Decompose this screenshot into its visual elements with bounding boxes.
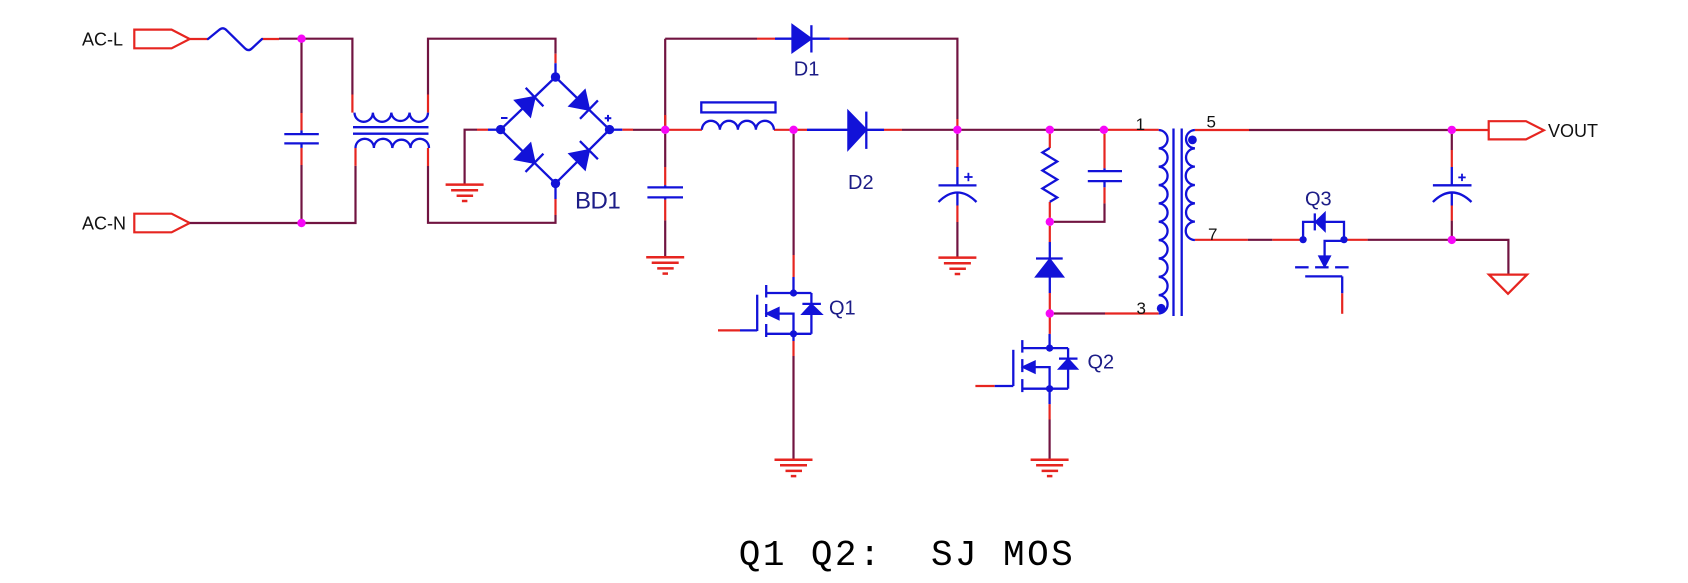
transformer T1 polarity dot secondary bbox=[1188, 136, 1197, 145]
wire riser at x665 to top rail bbox=[664, 39, 666, 130]
junction (VOUT / output cap top) bbox=[1448, 126, 1456, 134]
port VOUT bbox=[1489, 121, 1598, 141]
diode D1 bbox=[775, 25, 830, 52]
port AC-L bbox=[82, 29, 190, 49]
wire red Q1 gate stub bbox=[718, 329, 740, 331]
svg-text:1: 1 bbox=[1136, 115, 1145, 134]
wire red choke top-left lead bbox=[351, 95, 353, 113]
pin number 5 bbox=[1207, 112, 1216, 131]
wire red Q3 gate stub bbox=[1341, 293, 1343, 314]
wire pin5 to VOUT junction bbox=[1249, 129, 1452, 131]
node bridge bottom bbox=[551, 179, 560, 188]
wire AC-N rail bbox=[190, 166, 356, 223]
ground (chassis, output) bbox=[1489, 275, 1527, 294]
wire snubber cap bottom link bbox=[1054, 203, 1105, 221]
ground (Q1 source) bbox=[775, 460, 813, 476]
bridge BD1 polarity marks bbox=[501, 115, 611, 122]
wire maroon mid segment pin7 bbox=[1248, 239, 1272, 241]
bridge rectifier BD1 edges bbox=[501, 77, 610, 183]
svg-text:BD1: BD1 bbox=[575, 187, 620, 214]
svg-text:AC-N: AC-N bbox=[82, 213, 126, 233]
inductor L2 (PFC boost) bar bbox=[701, 102, 775, 112]
wire red Q1 drain lead bbox=[792, 255, 794, 277]
wire choke top-right to bridge top bbox=[428, 39, 556, 95]
wire Q3 to output cap junction bbox=[1368, 239, 1452, 241]
svg-text:D1: D1 bbox=[794, 59, 820, 81]
wire red junction to PFC inductor bbox=[665, 129, 702, 131]
wire red Q3 source side bbox=[1344, 239, 1368, 241]
wire red choke bottom-left lead bbox=[354, 148, 356, 166]
ground (bridge minus) bbox=[446, 185, 484, 201]
wire bridge plus node to junction bbox=[633, 129, 665, 131]
wire junction to EMI cap C2 bbox=[664, 134, 666, 257]
wire bulk cap leads bbox=[956, 134, 958, 258]
label Q1 bbox=[829, 297, 856, 319]
capacitor C5 (output, polarized) bbox=[1433, 167, 1472, 206]
common-mode choke L1 core bbox=[353, 127, 429, 134]
label BD1 bbox=[575, 187, 620, 214]
wire red snubber C leads bbox=[1103, 134, 1105, 204]
inductor L2 winding bbox=[702, 121, 774, 130]
wire red AC-L port to fuse bbox=[190, 38, 208, 40]
wire red clamp diode leads bbox=[1049, 226, 1051, 310]
junction (AC-N / X-cap) bbox=[297, 219, 305, 227]
wire red VOUT junction to port bbox=[1452, 129, 1489, 131]
label Q2 bbox=[1088, 351, 1115, 373]
wire red Q2 gate stub bbox=[975, 385, 994, 387]
wire main rail to snubber junctions bbox=[957, 129, 1104, 131]
svg-text:AC-L: AC-L bbox=[82, 29, 123, 49]
capacitor C3 plus sign bbox=[964, 173, 972, 181]
junction (snubber R top) bbox=[1046, 126, 1054, 134]
wire red X-cap bottom lead bbox=[300, 148, 302, 165]
fuse F1 bbox=[208, 28, 262, 50]
transistor Q3 (MOSFET, sync rectifier) bbox=[1295, 213, 1349, 293]
capacitor C4 (snubber) bbox=[1088, 168, 1122, 187]
wire red bridge right lead bbox=[622, 129, 633, 131]
transformer T1 primary winding bbox=[1159, 130, 1168, 314]
svg-text:5: 5 bbox=[1207, 112, 1216, 131]
wire red inductor to junction bbox=[774, 129, 794, 131]
svg-text:Q1 Q2: SJ MOS: Q1 Q2: SJ MOS bbox=[739, 535, 1075, 576]
wire red Q1 source lead bbox=[792, 341, 794, 356]
bridge BD1 diode (left-bottom arm) bbox=[516, 144, 544, 172]
capacitor C5 plus sign bbox=[1458, 174, 1465, 181]
wire D2 cathode to bulk cap junction bbox=[902, 129, 957, 131]
ground (EMI cap C2) bbox=[646, 257, 684, 273]
bridge BD1 diode (bottom-right arm) bbox=[570, 141, 598, 169]
wire Q1 source to ground bbox=[792, 356, 794, 460]
transistor Q2 (MOSFET) bbox=[995, 334, 1078, 404]
wire red bridge bottom lead bbox=[554, 199, 556, 215]
svg-text:D2: D2 bbox=[848, 172, 874, 194]
junction (AC-L / X-cap) bbox=[297, 35, 305, 43]
common-mode choke L1 bottom winding bbox=[356, 139, 430, 148]
wire choke bottom-right to bridge bottom bbox=[428, 166, 556, 223]
capacitor C3 (bulk, polarized) bbox=[939, 167, 977, 206]
svg-text:Q2: Q2 bbox=[1088, 351, 1115, 373]
junction (output return) bbox=[1448, 236, 1456, 244]
transformer T1 core bbox=[1174, 129, 1182, 317]
wire red snubber R leads bbox=[1049, 134, 1051, 218]
wire Q2 source to ground bbox=[1048, 420, 1050, 460]
svg-text:Q3: Q3 bbox=[1305, 189, 1332, 211]
wire red junction to D2 anode bbox=[794, 129, 807, 131]
wire red choke bottom-right lead bbox=[427, 148, 429, 166]
wire Q1 drain drop bbox=[792, 134, 794, 255]
wire red Q2 source lead bbox=[1048, 404, 1050, 419]
wire X-cap bottom to AC-N rail bbox=[300, 165, 302, 223]
wire top rail through D1 bbox=[665, 39, 957, 119]
diode D3 (clamp) bbox=[1036, 242, 1063, 293]
transformer T1 secondary winding bbox=[1186, 130, 1195, 240]
wire red D2 cathode lead bbox=[884, 129, 902, 131]
wire red pin5 lead bbox=[1195, 129, 1249, 131]
note Q1 Q2: SJ MOS bbox=[739, 535, 1075, 576]
label D1 bbox=[794, 59, 820, 81]
wire red Q2 drain lead bbox=[1049, 318, 1051, 334]
port AC-N bbox=[82, 213, 190, 233]
transformer T1 polarity dot primary bbox=[1157, 304, 1166, 313]
capacitor C2 (EMI filter) bbox=[647, 185, 683, 199]
node bridge right bbox=[605, 125, 614, 134]
junction (pin3 / Q2 drain) bbox=[1046, 309, 1054, 317]
bridge BD1 diode (left-top arm) bbox=[516, 88, 544, 116]
wire red bridge top lead bbox=[554, 54, 556, 63]
wire red fuse to junction bbox=[262, 38, 279, 40]
ground (bulk cap C3) bbox=[938, 258, 976, 274]
wire red output cap leads bbox=[1451, 150, 1453, 221]
capacitor CX1 (X-cap) bbox=[284, 130, 319, 148]
pin number 7 bbox=[1208, 225, 1217, 244]
junction (snubber bottom) bbox=[1046, 218, 1054, 226]
wire output node to chassis ground bbox=[1452, 240, 1509, 275]
wire bridge minus node to ground stem bbox=[465, 130, 477, 185]
common-mode choke L1 top winding bbox=[355, 113, 429, 122]
node bridge left bbox=[496, 125, 505, 134]
wire red drop to bulk junction bbox=[956, 119, 958, 130]
transistor Q1 (MOSFET) bbox=[740, 277, 821, 341]
svg-text:3: 3 bbox=[1137, 299, 1146, 318]
wire red pin7 lead bbox=[1195, 239, 1248, 241]
svg-text:7: 7 bbox=[1208, 225, 1217, 244]
wire red riser segment at x665 bbox=[664, 115, 666, 130]
ground (Q2 source) bbox=[1031, 460, 1069, 476]
pin number 1 bbox=[1136, 115, 1145, 134]
wire AC-L junction down to X-cap bbox=[300, 39, 302, 113]
junction (D1 / D2 / bulk cap) bbox=[953, 126, 961, 134]
wire red D1 cathode side bbox=[830, 38, 849, 40]
label D2 bbox=[848, 172, 874, 194]
wire red to pin 3 bbox=[1105, 312, 1159, 314]
bridge BD1 leads bbox=[488, 63, 622, 199]
wire AC-L rail junction to choke top-left bbox=[279, 39, 352, 95]
diode D2 bbox=[807, 112, 884, 149]
wire red rail to pin 1 bbox=[1104, 129, 1159, 131]
wire red choke top-right lead bbox=[427, 95, 429, 113]
bridge BD1 diode (top-right arm) bbox=[570, 91, 598, 119]
junction (inductor / D2 / Q1 drain) bbox=[789, 126, 797, 134]
wire output cap leads bbox=[1451, 134, 1453, 236]
label Q3 bbox=[1305, 189, 1332, 211]
wire red D1 anode side bbox=[757, 38, 775, 40]
wire node to transformer pin 3 bbox=[1054, 312, 1105, 314]
wire red bridge left lead bbox=[477, 129, 488, 131]
wire red C2 leads bbox=[664, 167, 666, 220]
node bridge top bbox=[551, 72, 560, 81]
wire red pin7 to Q3 drain bbox=[1272, 239, 1303, 241]
wire red bulk cap leads bbox=[956, 150, 958, 222]
resistor R1 (snubber) bbox=[1042, 148, 1057, 202]
junction (snubber C top) bbox=[1100, 126, 1108, 134]
pin number 3 bbox=[1137, 299, 1146, 318]
svg-text:Q1: Q1 bbox=[829, 297, 856, 319]
junction (bridge + node) bbox=[661, 126, 669, 134]
wire red X-cap top lead bbox=[300, 113, 302, 130]
svg-text:VOUT: VOUT bbox=[1548, 121, 1598, 141]
